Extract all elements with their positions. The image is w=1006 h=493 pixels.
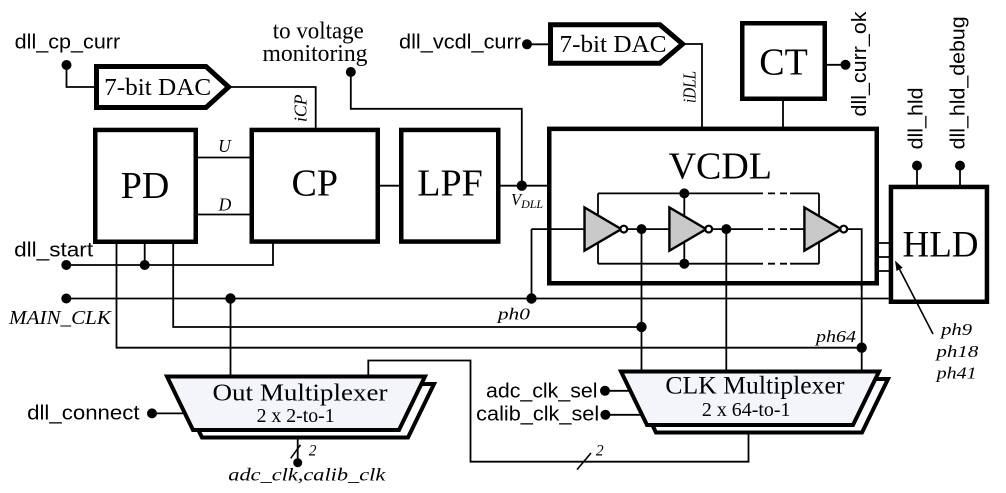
wire Out Multiplexer output bus [291,430,303,467]
CLK Multiplexer shadow [630,379,888,433]
svg-text:ph64: ph64 [815,327,857,346]
block CP [252,130,378,242]
arrow ph9/ph18/ph41 pointer [895,261,933,335]
wire PD pin to dll_start [144,242,146,265]
VCDL top rail [598,192,819,194]
VCDL rail vertical 2 with junction dots [679,188,689,268]
svg-text:LPF: LPF [417,163,482,205]
wire ph64 down to CLK Multiplexer [861,285,863,371]
inverter 1 [585,208,628,251]
wire VCDL input line [532,228,586,230]
svg-text:iDLL: iDLL [680,71,700,103]
svg-text:MAIN_CLK: MAIN_CLK [8,307,112,329]
wire tap1 down to CLK Multiplexer [641,229,643,371]
svg-text:dll_hld: dll_hld [904,87,927,149]
block PD [95,130,196,242]
wire dll_vcdl_curr to DAC2 [522,39,550,49]
wire dll_hld pin [912,161,922,187]
svg-text:2: 2 [596,443,604,460]
inverter 3 [804,208,847,251]
svg-text:D: D [218,194,232,214]
wire dll_hld_debug pin [955,161,965,187]
svg-text:monitoring: monitoring [263,41,368,67]
wire inverter3 output to ph64 [840,229,862,290]
wire tap2 down to CLK Multiplexer [725,229,727,371]
svg-text:dll_start: dll_start [14,238,93,261]
svg-text:2 x 2-to-1: 2 x 2-to-1 [257,406,335,427]
wire DAC2 output iDLL to VCDL top [683,44,702,129]
wire CP to LPF [379,185,401,187]
wire adc_clk_sel [600,386,631,396]
7-bit DAC 1 [97,67,229,108]
svg-text:Out Multiplexer: Out Multiplexer [213,380,388,406]
wire inverter2 output (solid then dashed) [706,224,805,234]
block HLD [891,187,987,302]
wire to voltage monitoring tap [346,67,522,186]
svg-text:iCP: iCP [291,94,311,122]
VCDL bottom rail [598,263,819,265]
svg-text:7-bit DAC: 7-bit DAC [560,32,667,58]
wire dll_cp_curr to DAC1 [62,60,97,87]
svg-text:ph18: ph18 [935,342,979,361]
svg-text:dll_vcdl_curr: dll_vcdl_curr [399,31,521,54]
block CT [742,23,825,99]
svg-text:CT: CT [759,42,808,84]
wire MAIN_CLK down to Out Multiplexer [230,299,232,377]
wire MAIN_CLK / ph0 [61,293,888,303]
svg-text:CLK Multiplexer: CLK Multiplexer [665,372,845,399]
svg-text:2: 2 [309,443,317,460]
svg-text:dll_curr_ok: dll_curr_ok [848,11,871,117]
wire PD pin to ph64 [117,242,867,353]
7-bit DAC 2 [551,25,683,63]
svg-text:CP: CP [292,163,338,205]
wire dll_connect [147,408,183,418]
svg-text:dll_connect: dll_connect [27,402,140,425]
VCDL rail vertical 3 [818,193,820,263]
svg-text:dll_cp_curr: dll_cp_curr [15,31,121,54]
svg-text:ph41: ph41 [935,364,976,383]
svg-text:U: U [218,136,232,156]
wire D: PD to CP [196,214,251,216]
svg-text:ph9: ph9 [940,320,973,339]
svg-text:2 x 64-to-1: 2 x 64-to-1 [702,400,791,421]
wire DAC1 output iCP to CP top [229,87,316,130]
wire CT to VCDL [782,99,784,129]
svg-text:VCDL: VCDL [669,146,772,188]
wire U: PD to CP [196,157,251,159]
block VCDL [549,129,877,283]
wire calib_clk_sel [600,410,643,420]
svg-text:HLD: HLD [902,225,978,266]
svg-text:adc_clk_sel: adc_clk_sel [486,379,598,402]
wire LPF to VCDL (VDLL node) [500,181,550,191]
wire dll_start [61,242,273,270]
connection ticks VCDL to HLD (ph9 ph18 ph41) [875,243,891,271]
wire PD pin to first tap [173,242,647,332]
svg-text:7-bit DAC: 7-bit DAC [104,75,211,101]
wire CLK Multiplexer output bus to Out Multiplexer [368,361,748,470]
inverter 2 [669,208,712,251]
svg-text:dll_hld_debug: dll_hld_debug [947,16,970,149]
CLK Multiplexer [621,372,879,426]
svg-text:ph0: ph0 [497,305,531,324]
VCDL rail vertical 1 [597,193,599,263]
svg-text:calib_clk_sel: calib_clk_sel [476,402,599,425]
wire CT output dll_curr_ok [826,60,851,70]
wire inverter1 output [621,224,670,234]
svg-text:adc_clk,calib_clk: adc_clk,calib_clk [228,465,386,485]
Out Multiplexer [167,377,425,431]
block LPF [401,130,498,242]
wire MAIN_CLK up into VCDL input [531,229,533,298]
svg-text:PD: PD [121,165,170,207]
Out Multiplexer shadow [176,384,434,438]
